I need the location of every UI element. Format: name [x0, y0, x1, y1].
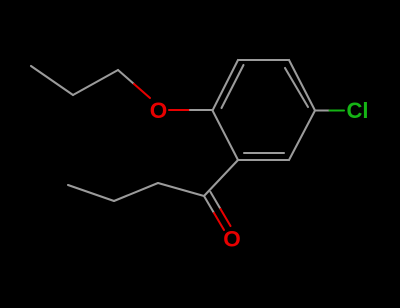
wire butanone chain C3-C4 [68, 185, 114, 201]
wire O to ring red half [169, 109, 190, 111]
svg-text:Cl: Cl [347, 98, 369, 123]
wire butanone chain C1-C2 [158, 183, 204, 196]
wire O to ring gray half [190, 109, 212, 111]
wire propyl CH3-CH2 [31, 66, 73, 95]
wire ring BL to carbonyl C [204, 160, 238, 196]
wire propyl CH2 to O red half [134, 84, 150, 98]
ring inner double bond left-top [222, 65, 244, 108]
ring inner double bond bottom [244, 152, 284, 154]
svg-text:O: O [223, 227, 241, 252]
wire ring to Cl green half [330, 109, 345, 111]
wire butanone chain C2-C3 [114, 183, 158, 201]
ring inner double bond right-top [285, 68, 308, 107]
benzene ring [213, 60, 316, 160]
wire ring to Cl gray half [315, 109, 330, 111]
svg-text:O: O [150, 98, 168, 123]
carbonyl C=O double bond red halves [214, 213, 224, 230]
wire propyl CH2-CH2 [73, 70, 118, 95]
carbonyl C=O double bond gray halves [204, 196, 214, 213]
wire propyl CH2 to O gray half [118, 70, 134, 84]
